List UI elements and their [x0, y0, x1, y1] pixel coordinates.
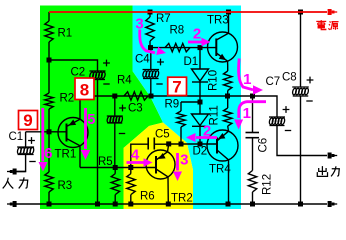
- svg-text:R4: R4: [117, 75, 132, 87]
- svg-text:C7: C7: [266, 76, 281, 88]
- svg-text:C4: C4: [135, 54, 150, 66]
- svg-text:2: 2: [193, 26, 201, 43]
- svg-text:D1: D1: [184, 56, 199, 68]
- svg-text:3: 3: [135, 16, 143, 33]
- svg-text:1: 1: [243, 105, 251, 122]
- svg-text:C8: C8: [282, 72, 297, 84]
- svg-text:5: 5: [87, 111, 95, 128]
- svg-text:2: 2: [203, 123, 211, 140]
- svg-text:4: 4: [131, 147, 140, 164]
- svg-text:D2: D2: [193, 146, 208, 158]
- svg-text:R8: R8: [170, 25, 185, 37]
- svg-text:R10: R10: [208, 70, 220, 91]
- svg-text:7: 7: [172, 78, 181, 97]
- svg-text:R12: R12: [262, 174, 274, 195]
- svg-text:C2: C2: [71, 67, 86, 79]
- svg-text:9: 9: [23, 111, 32, 130]
- svg-text:C3: C3: [128, 103, 143, 115]
- svg-text:R1: R1: [58, 28, 73, 40]
- svg-text:3: 3: [180, 152, 188, 169]
- svg-text:R7: R7: [156, 13, 171, 25]
- svg-text:6: 6: [44, 145, 52, 162]
- svg-text:C5: C5: [155, 129, 170, 141]
- svg-text:R9: R9: [165, 99, 180, 111]
- svg-text:TR3: TR3: [207, 15, 229, 27]
- svg-text:TR1: TR1: [55, 149, 77, 161]
- svg-text:C1: C1: [9, 131, 24, 143]
- svg-text:R5: R5: [98, 156, 113, 168]
- svg-text:R6: R6: [140, 191, 155, 203]
- svg-text:R2: R2: [60, 93, 75, 105]
- svg-text:8: 8: [80, 81, 89, 100]
- svg-text:C6: C6: [258, 138, 270, 153]
- svg-text:R3: R3: [58, 180, 73, 192]
- svg-text:TR4: TR4: [209, 164, 231, 176]
- svg-text:1: 1: [243, 71, 251, 88]
- svg-text:TR2: TR2: [171, 193, 193, 205]
